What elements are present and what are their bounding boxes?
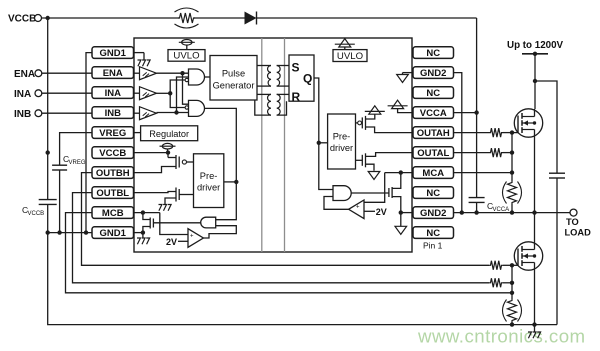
wire predriver B input xyxy=(224,181,237,183)
svg-text:Pre-: Pre- xyxy=(333,132,351,142)
wire NMOS A drain to OUTAL xyxy=(366,153,414,157)
svg-text:VCCB: VCCB xyxy=(8,14,36,25)
power MOSFET Q2 low side xyxy=(514,242,542,270)
resistor OUTAL gate xyxy=(489,148,503,157)
node HV bar xyxy=(533,52,537,56)
wire MCB internal xyxy=(134,212,160,214)
svg-text:Q: Q xyxy=(303,72,312,86)
wire MCA internal xyxy=(385,172,413,174)
svg-text:INA: INA xyxy=(14,89,31,100)
AND gate G1 (pulse) xyxy=(189,69,205,85)
node GND2 tie xyxy=(460,210,464,214)
svg-text:Generator: Generator xyxy=(213,81,255,91)
resistor OUTBH gate low side xyxy=(489,261,503,270)
node MCB gate xyxy=(510,291,514,295)
node VCCB-pin tap xyxy=(46,150,50,154)
wire OUTBH wrap to low-side gate resistor xyxy=(82,173,490,266)
wire gate node vertical high side xyxy=(511,133,513,181)
wire GND1 pin1 to pin10 tie xyxy=(86,53,92,233)
wire ENA to gate1 and gate2 xyxy=(157,72,189,74)
buffer ENA xyxy=(134,72,140,74)
wire MCB sense to comparator B xyxy=(160,213,188,235)
node OUTAH gate xyxy=(510,130,514,134)
svg-text:OUTBH: OUTBH xyxy=(96,168,130,179)
wire MCA to gate node xyxy=(454,172,513,174)
wire VREG to regulator xyxy=(134,132,141,134)
supply symbol VCCA over UVLO right xyxy=(339,39,351,47)
node OUTBH gate xyxy=(510,263,514,267)
ground symbol GND2 pin2 xyxy=(397,75,409,83)
comparator B 2V xyxy=(188,229,203,248)
wire INB to gate2 and gate1 xyxy=(157,112,189,114)
svg-text:www.cntronics.com: www.cntronics.com xyxy=(417,326,586,347)
wire PMOS-B drain to OUTBH xyxy=(134,167,176,173)
wire comparator B out to AND B xyxy=(203,226,236,238)
isolation barrier line right xyxy=(284,38,286,252)
wire clamp A drain to MCA xyxy=(392,173,401,189)
wire Q to predriver A xyxy=(314,78,333,190)
AND gate A clamp xyxy=(333,186,351,201)
wire comparator A out to AND A xyxy=(324,197,349,210)
wire bus cap down crossing load rail xyxy=(556,178,558,325)
node MCB clamp drain xyxy=(141,210,145,214)
pin box NC (right 3) xyxy=(413,87,454,99)
pin box MCB (left 9) xyxy=(92,207,134,219)
node Q predriver tap xyxy=(317,141,321,145)
svg-text:MCA: MCA xyxy=(422,168,444,179)
wire GND2 mid rail to load xyxy=(454,212,571,214)
terminal TO LOAD xyxy=(570,209,577,216)
wire G1 out to pulse generator xyxy=(205,76,211,78)
wire GND2 pin2 internal xyxy=(403,72,414,74)
svg-text:VCCA: VCCA xyxy=(420,108,447,119)
wire PMOS A drain to OUTAH xyxy=(366,127,414,133)
transistor PMOS B high (mirrored) xyxy=(166,150,170,154)
svg-text:OUTAL: OUTAL xyxy=(417,148,449,159)
wire INB xyxy=(42,112,92,114)
wire VCCA to bootstrap rail xyxy=(454,112,477,114)
pin box NC (right 8) xyxy=(413,187,454,199)
svg-text:GND1: GND1 xyxy=(100,48,127,59)
capacitor C_VCCA xyxy=(469,197,485,199)
resistor gate-source low side xyxy=(508,299,517,322)
wire GND2 pin2 to pin9 tie xyxy=(454,73,462,213)
pulse generator U3 xyxy=(210,56,257,101)
svg-text:MCB: MCB xyxy=(102,208,124,219)
svg-text:+: + xyxy=(190,233,194,239)
wire VCCB pin to rail symbol xyxy=(134,152,168,154)
node OUTBL gate xyxy=(510,281,514,285)
wire Q1 gate xyxy=(512,132,518,134)
pin box GND1 (left 10) xyxy=(92,227,134,239)
resistor OUTBL gate low side xyxy=(489,278,503,287)
svg-text:NC: NC xyxy=(426,228,440,239)
svg-text:INB: INB xyxy=(105,108,122,119)
supply symbol VCCB internal xyxy=(162,143,172,149)
wire Q2 source to ground rail xyxy=(534,263,536,325)
svg-text:Pin 1: Pin 1 xyxy=(423,241,443,251)
svg-text:VREG: VREG xyxy=(69,160,86,166)
wire Q1 source to mid rail xyxy=(534,130,536,243)
ground symbol GND2 NMOS A xyxy=(368,172,380,180)
node clamp A source GND2 xyxy=(399,210,403,214)
svg-text:2V: 2V xyxy=(166,237,177,247)
node GND1 clamp source xyxy=(141,230,145,234)
predriver A U8 xyxy=(328,114,356,169)
pin box OUTBL (left 8) xyxy=(92,187,134,199)
wire 2V to comparator A xyxy=(364,210,375,212)
wire clamp A source to GND2 xyxy=(392,197,401,213)
wire clamp B source xyxy=(143,227,150,233)
node GND1-C_VREG xyxy=(57,230,61,234)
svg-text:UVLO: UVLO xyxy=(173,51,199,62)
transformer T2 bottom secondary winding xyxy=(277,93,289,95)
AND gate G2 (channel B) xyxy=(189,100,205,116)
wire PMOS A source to VCCA symbol xyxy=(366,114,375,119)
wire Q1 drain xyxy=(534,109,536,117)
wire GND2 pin9 internal xyxy=(401,212,413,214)
ground 777 GND1 pin10 xyxy=(137,238,140,244)
svg-text:VREG: VREG xyxy=(99,128,126,139)
pin box INA (left 3) xyxy=(92,87,134,99)
supply symbol VCCA over PMOS A xyxy=(369,106,381,114)
wire clamp B drain xyxy=(143,213,150,220)
SR latch U6 xyxy=(289,55,314,101)
wire VCCA symbol to pin xyxy=(398,109,413,113)
wire INA xyxy=(42,92,92,94)
node resistor to ground rail xyxy=(510,322,514,326)
svg-text:Pulse: Pulse xyxy=(222,69,245,79)
pin box OUTBH (left 7) xyxy=(92,167,134,179)
UVLO box left U2 xyxy=(168,50,205,62)
ground symbol GND2 below clamp A xyxy=(395,226,407,234)
pin box GND2 (right 9) xyxy=(413,207,454,219)
wire clamp A gate from AND A xyxy=(351,192,389,194)
wire HV branch to bus cap xyxy=(535,81,557,173)
pin box OUTAL (right 6) xyxy=(413,147,454,159)
svg-text:VCCB: VCCB xyxy=(28,211,45,217)
node VCCB branch xyxy=(46,16,50,20)
transformer T1 top secondary winding xyxy=(277,65,289,67)
svg-text:VCCB: VCCB xyxy=(99,148,126,159)
svg-text:INA: INA xyxy=(105,88,122,99)
node mid rail MOSFET xyxy=(532,210,536,214)
svg-text:Up to 1200V: Up to 1200V xyxy=(507,40,564,51)
wire ENA xyxy=(42,72,92,74)
svg-text:2V: 2V xyxy=(376,207,387,217)
pin box INB (left 4) xyxy=(92,107,134,119)
wire NMOS-B drain to OUTBL xyxy=(134,192,176,193)
wire Q2 drain from mid rail xyxy=(534,242,536,250)
node GND1-C_VCCB xyxy=(46,230,50,234)
wire MCA sense to comparator A xyxy=(364,173,385,203)
svg-text:NC: NC xyxy=(426,188,440,199)
wire INA to gate bubbles xyxy=(157,92,171,94)
wire G2 out to predriver B feed xyxy=(205,108,237,219)
node resistor to GND2 rail xyxy=(510,210,514,214)
buffer INB xyxy=(134,112,140,114)
diode D1 bootstrap xyxy=(245,12,257,25)
svg-text:GND2: GND2 xyxy=(420,68,446,79)
wire HV bus xyxy=(534,54,536,109)
svg-text:driver: driver xyxy=(330,143,353,153)
svg-text:driver: driver xyxy=(197,182,220,192)
ground 777 NMOS-B source xyxy=(159,205,162,211)
capacitor bus xyxy=(549,172,565,174)
svg-text:ENA: ENA xyxy=(14,69,35,80)
svg-text:OUTAH: OUTAH xyxy=(417,128,450,139)
node MCA gate xyxy=(510,170,514,174)
capacitor C_VREG xyxy=(52,164,67,166)
resistor gate-source high side xyxy=(508,181,517,204)
wire OUTAL with gate resistor xyxy=(454,152,490,154)
transistor clamp B (mirrored) xyxy=(152,219,154,228)
node VCCA bootstrap xyxy=(474,110,478,114)
wire OUTBL wrap xyxy=(73,193,490,283)
wire VREG to C_VREG xyxy=(60,133,92,166)
svg-text:R: R xyxy=(292,90,301,104)
buffer INA xyxy=(134,92,140,94)
wire VCCB vertical rail xyxy=(47,18,49,200)
supply symbol VCCB over UVLO xyxy=(182,40,192,46)
pin box OUTAH (right 5) xyxy=(413,127,454,139)
svg-text:GND2: GND2 xyxy=(420,208,446,219)
wire NMOS-B source to ground xyxy=(165,198,176,204)
svg-text:UVLO: UVLO xyxy=(337,51,363,62)
pin box VCCB (left 6) xyxy=(92,147,134,159)
supply symbol VCCA at VCCA pin xyxy=(392,100,404,108)
transistor NMOS A low xyxy=(356,159,363,161)
node HV branch xyxy=(533,79,537,83)
transformer T1 top primary winding xyxy=(257,65,271,67)
predriver B U5 xyxy=(194,154,224,208)
wire MCB wrap xyxy=(66,213,513,293)
transistor NMOS B low (mirrored) xyxy=(178,189,180,200)
wire bootstrap vertical xyxy=(476,18,478,197)
node GND1 pin1 tie xyxy=(84,230,88,234)
node Q2 source ground xyxy=(532,322,536,326)
wire GND1 wrap to power ground rail xyxy=(48,233,557,325)
pin box VCCA (right 4) xyxy=(413,107,454,119)
pin box NC (right 10) xyxy=(413,227,454,239)
svg-text:Regulator: Regulator xyxy=(149,129,189,139)
ground 777 at GND1 pin1 xyxy=(134,52,144,54)
resistor top (bootstrap) xyxy=(178,13,195,23)
transistor PMOS A high xyxy=(356,122,358,124)
power MOSFET Q1 high side xyxy=(514,109,542,137)
wire Q tap to predriver A xyxy=(319,142,328,144)
regulator U4 xyxy=(141,126,198,141)
node predriver B input xyxy=(234,180,238,184)
pin box MCA (right 7) xyxy=(413,167,454,179)
wire GND1 pin10 internal xyxy=(134,232,143,234)
svg-text:ENA: ENA xyxy=(103,68,123,79)
svg-text:+: + xyxy=(356,205,360,211)
transformer T2 bottom primary winding xyxy=(257,93,271,95)
wire OUTAH with gate resistor xyxy=(454,132,490,134)
svg-text:GND1: GND1 xyxy=(100,228,127,239)
wire NMOS A source to GND2 symbol xyxy=(366,164,375,171)
isolation barrier line left xyxy=(261,38,263,252)
wire VCCB top rail xyxy=(42,17,180,19)
pin box ENA (left 2) xyxy=(92,67,134,79)
pin box GND1 (left 1) xyxy=(92,47,134,59)
pin box NC (right 1) xyxy=(413,47,454,59)
transistor clamp A xyxy=(388,188,390,197)
wire 2V to comparator B xyxy=(178,240,188,242)
svg-text:OUTBL: OUTBL xyxy=(96,188,129,199)
node MCA clamp drain xyxy=(399,170,403,174)
svg-text:S: S xyxy=(292,61,300,75)
svg-text:INB: INB xyxy=(14,109,31,120)
pin box VREG (left 5) xyxy=(92,127,134,139)
wire Q2 gate xyxy=(512,264,518,266)
capacitor C_VCCB xyxy=(39,199,57,201)
svg-text:TO: TO xyxy=(566,217,579,227)
comparator A 2V xyxy=(349,200,364,219)
wire gate node vertical low side xyxy=(511,265,513,299)
node OUTAL gate xyxy=(510,150,514,154)
pin box GND2 (right 2) xyxy=(413,67,454,79)
wire PMOS-B gate xyxy=(187,161,194,163)
wire clamp B gate from AND xyxy=(153,222,200,224)
supply bar 1200V xyxy=(522,53,548,55)
wire GND1 bottom tie xyxy=(48,232,92,234)
AND gate B clamp (mirrored) xyxy=(201,217,216,228)
ground 777 power stage xyxy=(534,325,536,332)
svg-text:NC: NC xyxy=(426,88,440,99)
node C_VCCA bottom xyxy=(474,210,478,214)
svg-text:Pre-: Pre- xyxy=(200,171,218,181)
wire clamp A source to GND2 symbol xyxy=(400,213,402,227)
svg-text:LOAD: LOAD xyxy=(565,227,592,237)
resistor OUTAH gate xyxy=(489,128,503,137)
svg-text:NC: NC xyxy=(426,48,440,59)
wire NMOS-B gate xyxy=(179,194,193,196)
UVLO box right U7 xyxy=(333,50,367,62)
IC package outline xyxy=(134,38,412,252)
